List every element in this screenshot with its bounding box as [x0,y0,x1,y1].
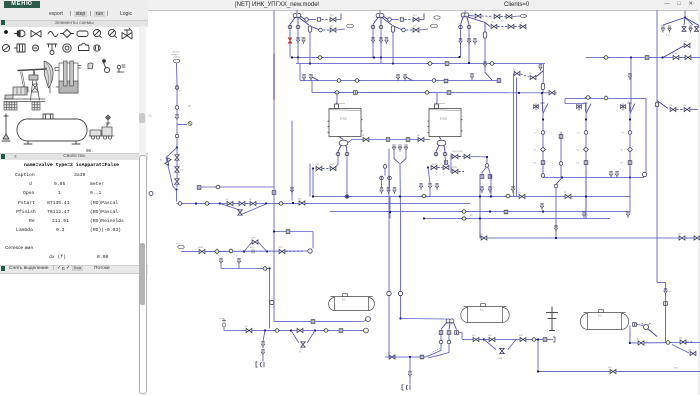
well-C branch mid [467,17,469,24]
well-A pot drop [309,32,311,57]
icon row2: double circle [63,44,71,52]
valve bus4-k1 [549,90,555,94]
bus delivery (y251) [181,250,308,253]
MS leg2 [449,323,450,329]
cluster-M w4 [471,155,487,158]
node y196-j2 [399,195,401,197]
valve T-s1 [380,187,383,194]
node bus4-j1 [518,91,520,93]
check y251-d1 [215,249,220,254]
y342 dashes [687,341,693,343]
P1 dashes [323,167,330,169]
node y218-j1 [479,217,481,219]
y330 bypass R [307,330,315,343]
D row dashes [677,108,684,110]
well-C dashes 2 [501,15,506,17]
block MS-q4 [420,355,424,359]
menu bar [4,1,40,8]
valve D-k2 [670,107,676,111]
y203 dashes2 [246,202,250,204]
valve C-k6 [520,24,526,28]
wellhead well-C [461,12,469,16]
block AC3-q1 [628,160,632,164]
palette icons and drawings [0,26,148,159]
riser pair B (x516.5) [516,77,518,196]
well-B lower dashed [406,29,413,31]
well-C dashes 3 [498,25,508,27]
valve bus3-s5 [470,73,473,80]
MS join2 [428,344,449,358]
valve trunkC-s [483,61,486,68]
fitting x561-c1 [559,161,563,165]
svg-text:з: з [218,254,219,257]
icon: circle pump 1 [93,29,101,37]
valve y238-k1 [481,235,487,239]
node y196-j3 [479,195,481,197]
inter-vessel pipe [348,139,430,142]
storage tank T-3 [580,309,628,329]
valve IV-s2 [398,145,401,152]
block y231-q1 [286,229,290,233]
node y371-j1 [537,370,539,372]
P3 diag [648,329,657,337]
valve y251-kb [252,239,258,243]
schematic window [148,0,700,395]
valve bus1R-k2 [685,55,691,59]
node C2 on bus2 [468,61,470,63]
chain L w2 [176,89,178,105]
svg-text:Е-3: Е-3 [598,315,602,317]
node y196-j1 [346,195,348,197]
manifold head MS [446,318,454,322]
node y177-j2 [629,176,631,178]
chain L w4 [176,121,178,133]
valve C-k2 [494,14,500,18]
svg-text:Е-2: Е-2 [480,309,484,311]
svg-text:кр: кр [160,158,163,161]
T drop 2 [389,180,391,187]
MS drop2 [448,334,450,340]
x665 join bus [665,341,667,344]
drop x389 long [388,148,390,356]
svg-text:кт: кт [578,131,581,134]
cluster-M drop1 [479,174,481,238]
meter T-m1 [380,176,384,180]
block D-q1 [655,102,658,105]
drop x310 [309,163,311,196]
fitting AC2-c1 [584,130,588,134]
block trunk-q1 [272,190,276,194]
svg-text:кр: кр [491,21,494,24]
scrollbar right [698,10,700,395]
valve D-s1 [661,26,664,33]
svg-text:кр№: кр№ [452,166,457,169]
inlet pill [173,59,179,63]
valve y238-k2 [679,235,685,239]
flare outlet F-2 [402,384,410,389]
drawing: mast [2,114,10,141]
MS leg1 [441,322,447,329]
block x665-q2 [633,322,637,326]
svg-text:нм: нм [683,104,686,107]
valve T-s3 [393,187,396,194]
svg-text:вс-м: вс-м [219,318,224,320]
y339 bypass R [508,339,516,349]
window title bar [148,0,700,11]
node y330-j1 [264,329,266,331]
valve well-B-v2 [379,37,382,44]
valve x543-s1 [539,64,542,71]
valve y339-k1 [473,337,479,341]
well-C branch right lower [468,17,485,23]
bus manifold 4 (y92) [312,91,557,93]
icon: circle pump 2 [108,29,116,37]
well-B fitting r2 [402,28,406,32]
valve M-s2 [488,186,491,193]
well-A left leg [289,29,291,57]
valve y339-k3 [520,337,526,341]
well-B branch to left leg [373,17,378,24]
bus1R dashes [680,56,685,58]
valve IV-s1 [392,145,395,152]
drawing: gauge assembly [106,115,111,125]
meter P1-m3 [344,194,351,198]
y231 corner drop [312,231,314,248]
cluster-M drop2 [490,174,492,196]
valve D-k1 [684,43,690,47]
node AC1 top [542,118,544,120]
bottom toolbar [0,265,148,274]
icon row2: circle-12 [94,45,100,51]
P2 dashes [438,166,443,168]
node x400-j1 [399,317,401,319]
chain L w3 [176,109,178,114]
trident right [401,151,407,163]
valve y203-k4 [299,200,305,204]
y251 bypass L [244,242,252,252]
svg-text:вд: вд [564,191,567,194]
well-B branch to mid leg [380,18,382,25]
node y177-j1 [561,176,563,178]
valve P1-k1 [316,166,322,170]
icon row2: tee hanger [47,44,57,55]
node bus4-j2 [541,91,543,93]
node bus1R-j2 [661,56,663,58]
well-A branch to left leg [290,17,295,24]
meter P1-m1 [336,152,340,156]
MS q3 out [459,332,462,339]
y339 bypass L [484,339,496,349]
valve D-t2 [694,26,698,31]
valve bus3-s1 [302,74,305,81]
well-A trunk right [340,13,342,19]
well-A branch upper right [300,16,305,20]
well-B upper row tail [420,18,425,20]
valve P2-s1 [419,183,422,190]
cluster-C trunk diag [485,72,492,80]
fitting y321-c1 [366,316,371,321]
cluster-M d1 [459,155,464,157]
node y342-j0 [629,341,631,343]
icon: pill [77,31,88,37]
svg-text:кр: кр [520,21,523,24]
AC2 feed [565,103,586,113]
svg-text:кл: кл [577,161,580,164]
well-D diag to bus [663,46,684,58]
well-B upper dashed [405,18,413,20]
svg-text:з: з [494,188,495,191]
valve y251-k2 [279,249,285,253]
svg-text:кр кр: кр кр [672,52,678,55]
node AC3 top [629,118,631,120]
T drop 1 [381,180,383,187]
svg-text:вхд: вхд [250,246,254,249]
tank feed line (y321) [274,320,354,322]
vessel2 feed [436,92,438,104]
valve bus3-k1 [514,71,520,75]
cluster-M node drop [486,158,488,164]
meter L-m1 [175,85,179,89]
drop x630 lower [629,166,631,212]
valve C-k5 [508,24,514,28]
block y211-q1 [504,210,508,214]
svg-text:нч: нч [643,332,645,334]
y203 bypass diag L [220,203,240,210]
svg-text:ко: ко [534,148,537,151]
valve P1-k2 [330,166,336,170]
block x665-q1 [664,301,668,305]
x263 tail [262,355,264,361]
well-B pot [391,25,394,31]
meter bus4-m1 [334,90,341,94]
valve M-s1 [480,186,483,193]
node y203-j3 [292,201,294,203]
y203 bypass diag R [240,204,266,215]
icon: small gauge [117,65,125,72]
P2 to bus [429,189,431,196]
drop x400 long [400,218,402,317]
valve well-B-k2 [413,27,419,31]
icon: node dot [4,30,8,34]
fitting AC3-c1 [628,130,632,134]
P3 link [637,324,643,325]
vessel E-1 [328,102,363,136]
svg-text:кр2: кр2 [330,163,334,166]
meter y196-m2 [505,194,512,198]
pump station feed [401,318,450,320]
valve y330-k2 [297,328,303,332]
valve well-A-red (selected) [288,37,292,42]
y268 drop1 [220,265,222,269]
fitting y251-c1 [229,249,233,253]
drawing: separator columns [55,61,81,93]
bus pipeline out (y371) [538,370,700,372]
svg-text:крн: крн [678,232,682,235]
bus upper link (y186) [197,186,274,188]
valve y342-k1 [638,340,644,344]
chain L vert [176,147,178,187]
separator pill B [431,24,438,28]
P2 branch R [444,145,445,151]
node x310-j [312,195,314,197]
well-D apex stub [684,10,686,17]
valve y196-k1 [519,194,525,198]
tank outlet link [354,320,367,322]
well-D diag mid [684,17,685,25]
svg-text:з: з [384,35,385,38]
P1 drop R [346,156,348,196]
block bus1R-q1 [645,55,649,59]
svg-text:кр: кр [249,198,252,201]
valve y211-s2 [582,211,585,218]
svg-text:нм: нм [669,104,672,107]
well-A fitting r1 [305,17,309,21]
meter bus3-m1 [354,78,361,82]
well-A pot leg joins bus2 [309,57,311,63]
svg-text:кл: кл [621,161,624,164]
fitting AC1-c1 [541,130,545,134]
svg-text:клп: клп [252,236,256,239]
meter y268-m1 [262,266,269,270]
y203 dashes1 [234,202,239,204]
bus3 diag b [406,77,413,81]
well-C dashes 4 [515,25,520,27]
chain L branch [177,123,187,125]
well-A upper row wire [309,18,317,20]
meter bus2-m1 [427,61,434,65]
block bus3-q2 [497,78,501,82]
svg-text:з: з [236,254,237,257]
valve P2-s3 [435,183,438,190]
svg-text:кр1: кр1 [472,334,476,337]
inline filter y251 [252,249,254,253]
bus transfer (y231) [274,230,313,232]
svg-text:з: з [587,213,588,216]
well-A pot [308,25,311,31]
valve x263-s1 [261,341,264,348]
drop x480 to y238 [479,218,481,238]
bus3 diag a [312,77,319,81]
vessel E-2 [428,102,463,136]
drain trunk bottom [269,292,271,328]
svg-text:з з з: з з з [666,34,671,37]
meter y330-m1 [274,328,281,332]
fitting AC1-c2 [541,173,545,177]
bus export (y238) [488,237,700,239]
svg-text:кр: кр [637,337,640,340]
vessel1 feed [336,92,338,104]
valve y371-k1 [610,369,616,373]
fitting x400-c1 [398,291,402,295]
drawing: storage tank [17,114,87,144]
pump P-1 [339,140,348,146]
y339 dashes1 [480,338,489,340]
D row tail [691,108,699,110]
cluster-M d2 [459,170,465,172]
fitting x389-c1 [387,291,391,295]
drop x586 lower [585,169,587,218]
bus3 link dashes [521,74,530,77]
meter P2-m2 [443,152,447,156]
pump bottom-right P-3 [642,323,651,335]
svg-text:крв: крв [688,348,692,351]
valve IV-k2 [418,137,424,141]
AC1 column [542,113,544,177]
well-C branch left [461,17,464,25]
svg-text:кз: кз [181,168,183,171]
valve y211-s1 [540,203,543,210]
block IV-q2 [406,137,410,141]
MS flare tail [409,377,411,384]
bus3 left drop [299,63,301,80]
valve y203-k3 [250,201,256,205]
svg-text:кр3: кр3 [519,334,523,337]
node y251-j1 [243,250,245,252]
block y330-q1 [339,328,343,332]
valve well-B-v1 [371,37,374,44]
node y238-j1 [555,236,557,238]
valve L-v1 [175,154,179,159]
svg-text:Е-302: Е-302 [440,116,447,120]
well-B branch lower right [383,18,393,25]
well-B riser stub [379,10,381,13]
trunk x665 lower [665,282,667,342]
flare outlet F-1 [256,361,264,366]
valve well-C v1 [459,38,462,45]
node A3 on bus2 [309,62,311,64]
MS leg3 [454,322,457,329]
bus feed (y203) [183,202,470,204]
well-C pot [483,31,486,37]
valve well-A-k2 [330,27,336,31]
valve x665-s1 [664,288,667,295]
fitting edge-c [149,191,153,195]
bus5 right corner drop [645,98,647,172]
trunk main left dark segment [273,53,275,99]
node C1 on bus1 [458,55,460,57]
svg-text:кр1: кр1 [330,14,334,17]
valve x513-s1 [511,186,514,193]
well-A branch to mid leg [297,18,299,25]
trunk lower [273,231,275,292]
svg-text:вр: вр [470,214,473,217]
well-D lower diag [657,100,668,108]
trunk step right [657,281,666,283]
separator pill A [347,24,354,28]
riser pair A (x513) [513,73,515,196]
block MS-q1 [439,330,443,334]
chain L to bus [176,189,178,201]
node B3 on bus2 [392,62,394,64]
valve y342-k2 [680,339,686,343]
icon row2: H-block [15,44,26,52]
cluster-M bracket [450,153,452,172]
valve well-A-k1 [330,17,336,21]
well-B fitting r1 [388,17,392,21]
valve y196-k2 [565,194,571,198]
svg-text:крк: крк [608,366,612,369]
svg-text:кнс: кнс [388,351,392,354]
y342 diag [672,344,689,353]
well-A mid leg [297,29,299,57]
drop x538 [537,339,539,371]
bus manifold 1 (y57) [292,56,460,58]
valve x263-s2 [261,349,264,356]
block y339-q1 [543,337,547,341]
node y251-j2 [266,250,268,252]
AC1 feed from bus4 [542,103,545,113]
block y186-q1 [197,185,201,189]
